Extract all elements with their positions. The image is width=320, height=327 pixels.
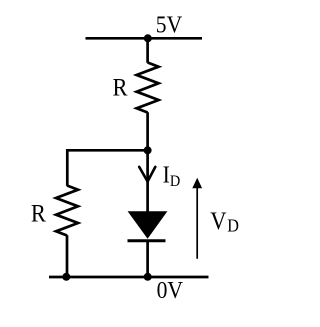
node: 5V junction dot	[144, 34, 152, 42]
node: bottom-center junction dot	[144, 273, 152, 281]
diode D1 cathode bar	[128, 239, 166, 242]
node: middle junction dot	[144, 146, 152, 154]
resistor R (top, R1) zigzag	[137, 63, 159, 113]
voltage arrow VD (vertical line, points up)	[196, 186, 198, 259]
svg-text:5V: 5V	[156, 11, 183, 37]
wire: diode cathode to ground rail	[146, 241, 149, 277]
node: bottom-left junction dot	[62, 273, 70, 281]
resistor R (left, R2) zigzag	[56, 186, 78, 236]
wire: top lead of resistor R1	[146, 38, 149, 63]
wire: bottom 0V rail	[49, 276, 209, 279]
diode D1 triangle (anode)	[128, 211, 168, 239]
svg-text:R: R	[31, 200, 46, 227]
svg-text:D: D	[227, 216, 239, 236]
svg-text:0V: 0V	[157, 277, 184, 303]
svg-text:V: V	[210, 208, 226, 235]
wire: left resistor bottom lead to ground rail	[66, 235, 69, 277]
wire: middle node down to diode anode	[146, 150, 149, 212]
svg-text:R: R	[113, 74, 128, 101]
wire: middle node to left corner	[66, 149, 148, 152]
wire: left branch vertical down to resistor R2	[66, 149, 69, 186]
svg-text:D: D	[170, 173, 180, 191]
current direction arrow ID (open arrowhead on wire)	[139, 167, 155, 182]
wire: bottom lead of resistor R1 down to middle node	[146, 112, 149, 150]
svg-text:I: I	[163, 162, 170, 188]
wire: top supply rail	[86, 37, 203, 40]
voltage arrow VD head	[192, 178, 202, 189]
